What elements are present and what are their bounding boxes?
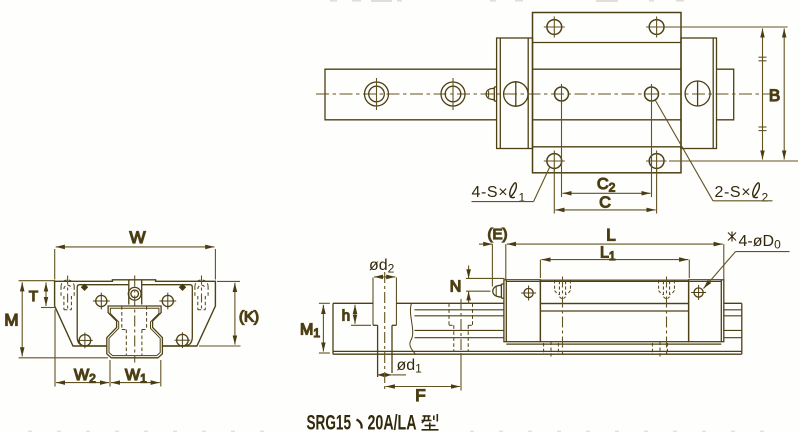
svg-text:W1: W1 [125,367,147,386]
dimension C2 [562,103,652,197]
end plate mid holes [93,293,176,310]
PLAN VIEW (top) [316,13,798,214]
FRONT VIEW (bottom left) [4,228,259,387]
edge artifacts top [330,0,684,2]
dimension F [386,356,461,391]
block outline (front) [55,280,216,346]
svg-text:T: T [29,288,38,305]
hidden counterbore hole 2 [449,303,473,351]
grease nipple (side) [493,284,504,298]
block body (side) [540,280,688,342]
rail (side) [333,303,742,354]
rail (plan) [325,69,734,120]
dimension h [351,305,371,326]
svg-text:M1: M1 [300,322,320,341]
svg-text:B: B [769,86,780,105]
sectioned counterbore hole 1 [373,278,396,378]
rail cross-section outer [107,306,163,358]
svg-text:ød1: ød1 [397,357,423,376]
dimension (E) [479,244,492,286]
label 4-S×l1 [472,168,550,205]
svg-text:C: C [599,195,611,212]
block dividing lines [533,43,682,147]
svg-text:2: 2 [762,191,769,205]
svg-text:F: F [415,386,425,405]
svg-text:ød2: ød2 [369,257,395,276]
svg-text:4-øD0: 4-øD0 [739,233,782,252]
corner mounting holes 4-S [547,20,664,169]
hidden flange bolt hole right [195,280,208,310]
svg-text:(K): (K) [239,308,259,325]
dimension C [554,169,656,214]
rail bolt hole 1 [365,78,389,110]
end plate face [77,285,192,346]
svg-text:N: N [450,279,462,296]
svg-text:4-S×: 4-S× [472,184,509,201]
kanji kata (type) drawn [422,414,439,430]
label 2-S×l2 [656,101,773,205]
right end cap [681,38,717,149]
dimension L1 [540,260,689,278]
dimension W [55,247,216,280]
left end cap [497,38,533,149]
svg-text:L: L [606,225,615,244]
dimension M1 [319,303,330,353]
dimension N [466,266,505,305]
svg-text:h: h [342,307,350,324]
block body (plan) [533,13,682,173]
dimension B [669,27,799,161]
ideographic comma [357,420,362,429]
dimensions W2 / W1 [55,310,161,387]
dimension T [41,283,56,308]
left end plate [504,280,541,342]
hidden rail holes under block [544,342,668,357]
right end plate [689,280,724,342]
SIDE VIEW (bottom right) [300,225,790,405]
rail groove lines [415,310,742,338]
CAPTION [307,411,439,432]
dimension phi-d1 [377,374,392,376]
svg-text:2-S×: 2-S× [715,184,752,201]
dimension M [19,281,108,358]
svg-text:M: M [4,311,18,330]
svg-text:(E): (E) [488,226,508,243]
grease nipple (front) [128,281,141,305]
svg-text:W: W [129,228,145,247]
block top double edge / bottom seal [506,282,721,345]
svg-text:W2: W2 [74,367,96,386]
end plate corner screws (bottom) [77,332,190,348]
grease nipple (plan) [486,87,496,101]
rail centerline [316,93,770,95]
label 4-phi-D0 [704,232,790,289]
middle holes 2-S [555,87,659,101]
svg-text:1: 1 [519,191,526,205]
hidden flange bolt hole left [61,280,74,310]
rail bolt hole 2 [441,78,465,110]
svg-text:SRG15: SRG15 [307,411,352,432]
seal screws (black diamonds) [81,284,186,291]
dimension L [506,244,724,279]
hidden rail bolt hole (front) [122,306,147,355]
section break line [410,303,416,354]
edge artifacts bottom (dotted row) [28,431,764,432]
hidden tap holes in body [555,280,675,299]
svg-text:20A/LA: 20A/LA [368,411,417,432]
rail cross-section inner [109,308,160,355]
dimension phi-d2 [374,276,395,278]
svg-text:C2: C2 [597,176,616,195]
center line (front) [134,276,136,363]
dimension (K) [199,281,241,346]
svg-text:L1: L1 [600,244,616,263]
